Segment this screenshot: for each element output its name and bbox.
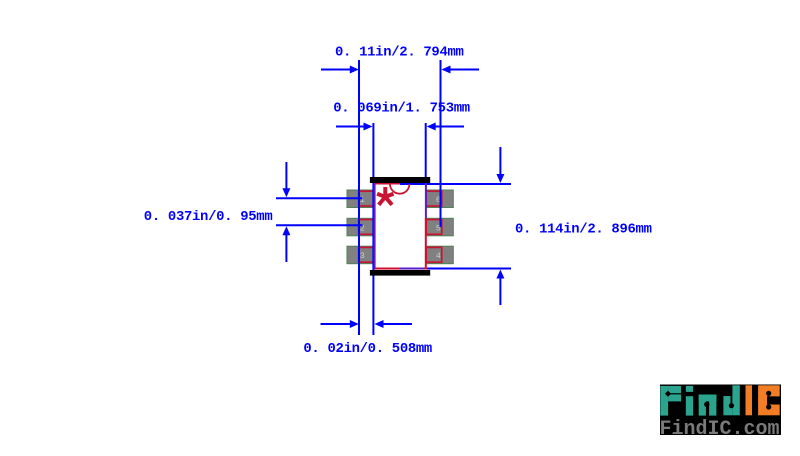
svg-text:0. 069in/1. 753mm: 0. 069in/1. 753mm: [333, 101, 470, 117]
svg-text:0. 11in/2. 794mm: 0. 11in/2. 794mm: [335, 45, 464, 61]
svg-text:FindIC.com: FindIC.com: [660, 418, 780, 441]
svg-text:1: 1: [360, 195, 365, 205]
svg-text:3: 3: [360, 251, 365, 261]
svg-text:4: 4: [436, 251, 441, 261]
svg-text:0. 114in/2. 896mm: 0. 114in/2. 896mm: [515, 222, 652, 238]
svg-text:0. 02in/0. 508mm: 0. 02in/0. 508mm: [303, 341, 432, 357]
svg-text:0. 037in/0. 95mm: 0. 037in/0. 95mm: [144, 209, 273, 225]
